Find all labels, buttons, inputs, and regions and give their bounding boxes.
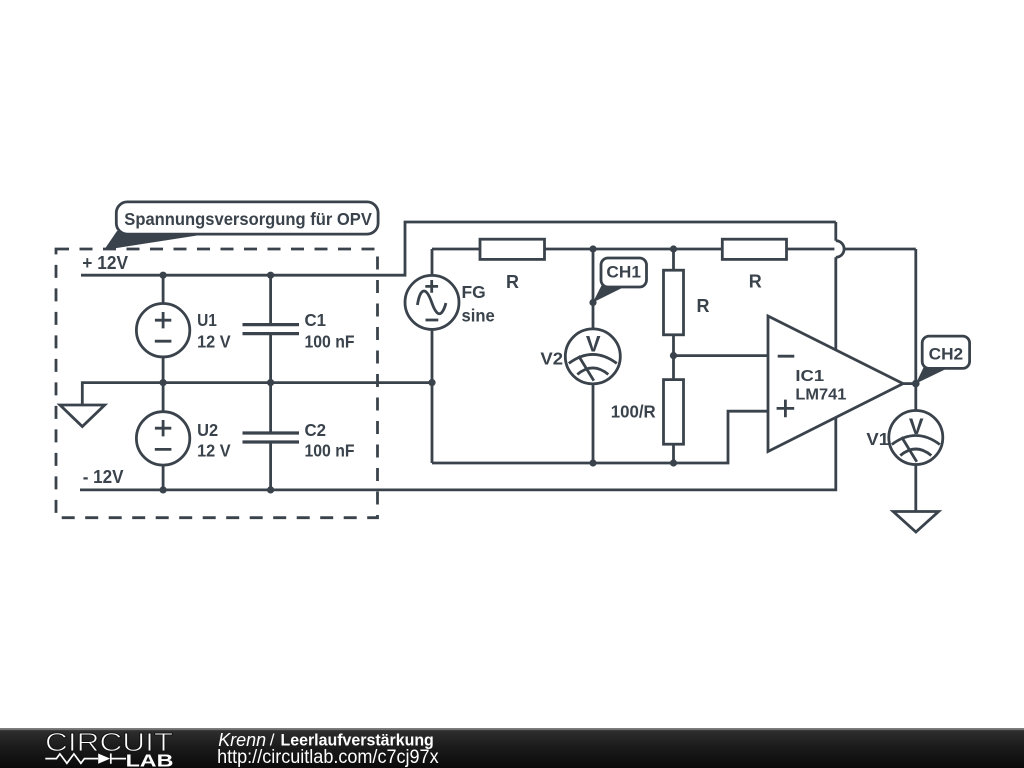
voltage source U2 [136,383,189,490]
wire +12V rail [81,222,836,275]
junction dots bottom wire [589,459,596,466]
op-amp IC1 [768,316,903,452]
node output junction [912,380,920,388]
wire 0V mid rail [82,383,432,405]
wire R1 to R2 [545,248,723,251]
annotation callout CH2 [916,336,970,384]
wire V1 to ground [914,465,917,512]
wire FG top to R1 [432,248,480,251]
wire output to V1 [914,384,917,411]
dashed enclosure box (power supply) [56,249,378,518]
svg-text:+ 12V: + 12V [82,253,128,273]
svg-text:100 nF: 100 nF [305,332,355,352]
wire bottom 0V return [432,411,768,463]
svg-text:U1: U1 [197,310,217,330]
svg-text:V2: V2 [540,348,563,368]
svg-text:C2: C2 [305,420,327,440]
capacitor C2 [243,383,300,490]
svg-text:100/R: 100/R [611,402,656,422]
resistor R (vertical) [664,249,684,380]
voltmeter V2 [565,329,620,384]
node B junction (inverting input net) [670,352,677,359]
svg-text:IC1: IC1 [795,368,824,385]
node A (CH1 probe point) [589,299,596,306]
svg-text:V: V [586,332,601,357]
wire -12V rail [80,417,836,490]
ground (left) [60,405,105,427]
resistor R1 [480,239,545,259]
wire hop to output riser [843,248,915,251]
svg-text:CH1: CH1 [606,263,641,281]
ground (right) [893,512,938,533]
voltage source U1 [136,275,189,382]
function generator FG [405,249,459,463]
svg-text:12 V: 12 V [197,332,231,352]
svg-text:FG: FG [462,282,486,302]
wire V2 bottom [592,384,595,463]
svg-text:LM741: LM741 [795,387,846,404]
logo resistor-diode glyph [45,754,126,764]
svg-text:LAB: LAB [126,750,174,768]
svg-text:C1: C1 [305,310,327,330]
wire op-amp output stub [903,382,916,385]
svg-text:U2: U2 [197,420,218,440]
annotation callout CH1 [593,258,647,303]
wire node B to op-amp inverting input [674,354,769,357]
svg-text:sine: sine [462,305,495,325]
junction dots on rails [160,272,167,279]
svg-text:Spannungsversorgung für OPV: Spannungsversorgung für OPV [124,209,372,229]
svg-text:V1: V1 [866,429,889,449]
svg-text:R: R [697,296,710,316]
node CH1 stem and V2 top lead [592,249,595,329]
footer banner [0,728,1024,768]
svg-text:R: R [749,272,762,292]
capacitor C1 [243,275,300,382]
voltmeter V1 [889,411,943,465]
svg-text:R: R [506,272,519,292]
svg-text:CH2: CH2 [929,345,964,363]
resistor R2 [722,239,786,259]
resistor 100/R [664,380,684,463]
wire output riser to feedback [914,249,917,384]
annotation callout: Spannungsversorgung für OPV [104,202,378,250]
junction dots on signal wire [589,245,596,252]
svg-text:100 nF: 100 nF [305,441,355,461]
svg-text:http://circuitlab.com/c7cj97x: http://circuitlab.com/c7cj97x [217,747,439,768]
svg-text:- 12V: - 12V [83,467,124,487]
svg-text:12 V: 12 V [197,441,231,461]
wire V+ riser with hop [836,222,844,350]
wire R2 to hop [787,248,835,251]
